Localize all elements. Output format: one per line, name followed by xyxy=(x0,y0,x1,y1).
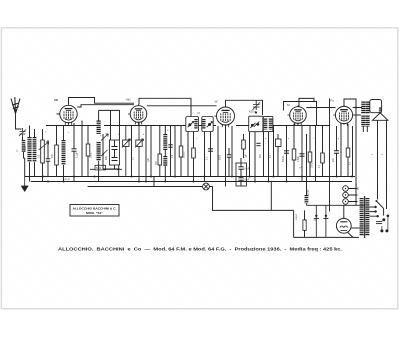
svg-text:0,1µF: 0,1µF xyxy=(77,151,79,158)
wire V1 plate drop xyxy=(81,121,83,177)
resistor field hatched xyxy=(304,195,308,204)
tap a xyxy=(374,206,376,208)
resistor R10 xyxy=(321,153,325,163)
wire taps xyxy=(370,207,378,216)
wire V5 cathode xyxy=(340,124,342,177)
capacitor C2 xyxy=(72,149,77,151)
capacitor C5 xyxy=(227,155,231,157)
svg-text:+4 (1): +4 (1) xyxy=(63,178,70,181)
wire IF4 leads xyxy=(264,132,269,182)
IF can T2 xyxy=(202,117,213,132)
bus junction B2 xyxy=(254,181,256,183)
coil L3a xyxy=(96,121,100,135)
capacitor C7 xyxy=(284,151,289,153)
label box xyxy=(70,205,119,217)
bus junction xyxy=(273,176,275,178)
junction padder xyxy=(118,168,120,170)
coil L4a xyxy=(163,134,167,150)
antenna trimmer xyxy=(19,128,26,137)
wire mid rail a xyxy=(46,125,98,127)
tap b xyxy=(374,210,376,212)
svg-text:0,1µF: 0,1µF xyxy=(243,180,250,182)
bus junction B2 xyxy=(47,181,49,183)
svg-text:MOD. “64”: MOD. “64” xyxy=(86,211,104,215)
bus junction B2 xyxy=(164,181,166,183)
wire C1 leads xyxy=(47,140,49,177)
wire drop xyxy=(145,126,147,182)
tube V2 xyxy=(128,105,147,126)
wire bus B3 xyxy=(88,186,213,188)
junction V5 feed xyxy=(355,107,357,109)
bus junction xyxy=(204,176,206,178)
svg-text:0,5µF: 0,5µF xyxy=(298,155,300,162)
svg-text:425 kc: 425 kc xyxy=(249,111,257,114)
coil L1 primary xyxy=(27,137,31,162)
dial lamp xyxy=(203,183,210,190)
coil output sec b xyxy=(366,116,370,127)
switch pivot xyxy=(375,200,377,202)
wire L3 leads xyxy=(98,110,100,181)
trimmer on V3 loop xyxy=(253,100,261,110)
svg-text:5000: 5000 xyxy=(220,154,222,160)
wire psu bottom line xyxy=(294,236,359,238)
wire psu top line xyxy=(307,204,366,206)
bus junction xyxy=(131,176,133,178)
tube V5 xyxy=(333,105,352,126)
coil mains primary xyxy=(360,198,364,236)
wire bus B2 xyxy=(31,181,352,183)
wire bus link xyxy=(90,168,122,170)
wire transformer bottom leads xyxy=(363,127,367,133)
coil mains secondary xyxy=(365,198,369,236)
wire C2 leads xyxy=(73,123,75,182)
wire speaker drops xyxy=(378,120,387,209)
coil antenna choke xyxy=(22,140,26,152)
wire mid rail c xyxy=(236,125,330,127)
svg-text:10000: 10000 xyxy=(308,189,310,196)
wire selector taps xyxy=(348,189,357,202)
coil L2 xyxy=(62,140,66,165)
junction xyxy=(117,168,119,170)
wire rail V2-V3 xyxy=(147,105,217,107)
wire osc left tap xyxy=(102,134,104,169)
mains plug xyxy=(380,215,389,233)
capacitor C3 xyxy=(168,145,172,147)
svg-text:ALLOCCHIO BACCHINI & C.: ALLOCCHIO BACCHINI & C. xyxy=(73,207,117,211)
bus junction xyxy=(174,176,176,178)
svg-text:C²: C² xyxy=(16,149,19,152)
svg-text:ALLOCCHIO. BACCHINI e Co —: ALLOCCHIO. BACCHINI e Co — Mod. 64 F.M. … xyxy=(58,247,342,252)
resistor on bus xyxy=(95,165,106,170)
svg-text:10000: 10000 xyxy=(296,213,298,220)
wire lamp to psu xyxy=(213,187,294,211)
wire drop xyxy=(150,126,152,177)
block capacitor box xyxy=(236,163,247,186)
padder marks xyxy=(112,140,118,161)
wire V4 outer loop xyxy=(284,102,317,126)
wire R11 leads xyxy=(347,124,349,177)
resistor R6 xyxy=(192,148,196,158)
wire R1 leads xyxy=(42,129,44,182)
wire to output transformer xyxy=(353,107,362,109)
wire mid rail b xyxy=(104,125,216,127)
tube V3 xyxy=(214,106,234,127)
wire V3 cathode drop xyxy=(225,125,227,187)
wire R5 leads xyxy=(180,126,182,177)
wire V4-V5 rail xyxy=(306,107,335,109)
resistor R7 xyxy=(242,140,246,149)
wire IF1 leads xyxy=(188,132,194,177)
svg-text:W: W xyxy=(215,100,218,104)
bus junction xyxy=(150,176,152,178)
resistor R11 xyxy=(346,148,350,157)
bus junction B2 xyxy=(145,181,147,183)
speaker housing xyxy=(370,100,382,113)
gang capacitor G2 xyxy=(135,123,143,182)
speaker cone xyxy=(373,113,388,121)
svg-text:50000: 50000 xyxy=(184,151,186,158)
wire drop xyxy=(286,126,288,182)
resistor R5 xyxy=(179,146,183,157)
svg-text:1000: 1000 xyxy=(312,162,314,168)
wire drop xyxy=(170,126,172,177)
wire top rail V1 loop xyxy=(69,98,135,105)
wire long right feed xyxy=(329,98,331,211)
diode box xyxy=(276,139,282,147)
wire L4 leads xyxy=(164,126,166,182)
wire L1 leads xyxy=(30,126,35,182)
resistor R4 xyxy=(158,154,162,165)
resistor bleeder xyxy=(303,220,306,231)
svg-text:50000: 50000 xyxy=(283,155,285,162)
wire drop xyxy=(231,126,233,177)
wire R3 leads xyxy=(87,126,89,177)
wire C9 leads xyxy=(336,126,338,177)
wire drop xyxy=(352,126,354,177)
wire block leads xyxy=(240,158,242,187)
bus junction B2 xyxy=(268,181,270,183)
coil L1 secondary xyxy=(33,137,37,162)
wire R10 leads xyxy=(322,126,324,177)
wire IF3 leads xyxy=(250,132,256,182)
wire lamp link xyxy=(153,177,155,187)
bus junction xyxy=(94,176,96,178)
wire V4 inner loop xyxy=(299,98,314,107)
bus junction xyxy=(336,176,338,178)
wire R7 leads xyxy=(243,134,245,158)
bus junction xyxy=(301,176,303,178)
wire drop xyxy=(174,126,176,177)
bus junction xyxy=(73,176,75,178)
wire IF2 leads xyxy=(205,132,211,182)
wire drop xyxy=(217,126,219,177)
wire osc top xyxy=(99,110,120,140)
wire drop xyxy=(315,126,317,182)
capacitor C6 xyxy=(256,143,260,145)
junction IF2 top xyxy=(255,111,257,113)
wire antenna lead xyxy=(16,114,22,130)
bus junction xyxy=(42,176,44,178)
bus junction xyxy=(315,176,317,178)
wire R6 lead xyxy=(193,158,195,182)
svg-text:50000: 50000 xyxy=(25,145,27,152)
resistor R3 xyxy=(86,144,90,156)
wire V1 grid hook xyxy=(77,105,134,107)
IF can T3 xyxy=(249,116,263,132)
capacitor C8 xyxy=(300,154,305,156)
resistor R9 xyxy=(308,152,312,162)
bus junction xyxy=(231,176,233,178)
voltage selector xyxy=(343,186,349,205)
bus junction xyxy=(249,176,251,178)
svg-text:Py: Py xyxy=(331,99,335,103)
svg-text:1µF: 1µF xyxy=(148,157,150,162)
coil L3b xyxy=(96,142,100,161)
wire ant chain xyxy=(23,137,25,177)
capacitor C1 xyxy=(46,159,50,161)
wire bleeder leads xyxy=(304,210,306,237)
wire feed cont xyxy=(306,204,308,206)
junction block xyxy=(240,176,242,178)
capacitor C4 xyxy=(208,149,213,151)
wire rectifier top xyxy=(343,205,345,218)
wire V5 to output xyxy=(353,114,361,116)
wire rectifier right xyxy=(351,227,361,229)
wire psu left vertical xyxy=(293,210,295,237)
tube V1 xyxy=(58,104,78,125)
capacitor mains xyxy=(376,222,382,224)
svg-text:+A: +A xyxy=(299,167,302,170)
transformer core xyxy=(363,196,366,238)
bus junction B2 xyxy=(286,181,288,183)
wire R2 leads xyxy=(57,114,60,177)
IF can T1 xyxy=(186,117,199,132)
svg-text:0,1µF: 0,1µF xyxy=(243,169,250,171)
svg-text:M: M xyxy=(287,103,290,107)
ground arrow xyxy=(21,177,28,192)
resistor R1 tall xyxy=(41,140,45,163)
antenna xyxy=(11,97,20,114)
wire osc mid vertical xyxy=(110,110,112,140)
wire R8 leads xyxy=(293,124,295,177)
trimmer arrow L1 xyxy=(39,142,49,150)
capacitor 0.1uF a xyxy=(238,167,243,169)
svg-text:1µF: 1µF xyxy=(246,153,248,158)
padder box xyxy=(110,140,120,165)
capacitor 0.1uF b xyxy=(238,178,243,180)
wire V3 top loop xyxy=(226,100,263,115)
wire drop xyxy=(131,126,133,177)
wire power feed xyxy=(306,134,308,195)
trimmer arrows L3 xyxy=(101,134,108,156)
electrolytic 2 xyxy=(323,205,328,237)
wire drop xyxy=(301,126,303,182)
IF can T4 coils xyxy=(263,116,273,131)
wire B2 end drop xyxy=(270,182,272,211)
tap c xyxy=(376,215,378,217)
svg-text:+B1: +B1 xyxy=(126,98,132,102)
wire rectifier diag xyxy=(348,233,353,238)
wire R9 leads xyxy=(309,126,311,177)
wire drop xyxy=(273,126,275,177)
wire V5 top right xyxy=(344,99,356,177)
capacitor C9 xyxy=(334,151,339,153)
wire top rail B+ IF1 xyxy=(139,98,191,117)
wire C5 drop xyxy=(228,148,230,177)
coil output prim b xyxy=(361,116,365,127)
coil output prim a xyxy=(361,102,365,114)
tube V4 xyxy=(288,106,307,126)
resistor R2 tall xyxy=(55,145,59,165)
bus junction xyxy=(351,176,353,178)
speaker hatch xyxy=(379,108,382,113)
bus junction B2 xyxy=(63,181,65,183)
junction osc xyxy=(102,154,104,156)
coil output sec a xyxy=(366,102,370,114)
wire R4 leads xyxy=(159,126,161,177)
rectifier tube xyxy=(336,218,351,233)
svg-text:M: M xyxy=(198,112,200,115)
wire V5 feed down xyxy=(355,177,357,206)
svg-text:5000: 5000 xyxy=(91,152,93,158)
electrolytic 1 xyxy=(314,205,319,237)
wire L2 leads xyxy=(63,126,65,182)
mains switch xyxy=(376,201,383,216)
wire diode leads xyxy=(277,134,279,177)
coil L4b xyxy=(163,156,167,166)
bus junction B2 xyxy=(138,181,140,183)
gang capacitor G1 xyxy=(122,126,130,177)
wire padder bottom xyxy=(103,165,119,177)
wire bus B1 xyxy=(25,176,355,178)
resistor R8 xyxy=(292,149,296,160)
bus junction B2 xyxy=(193,181,195,183)
